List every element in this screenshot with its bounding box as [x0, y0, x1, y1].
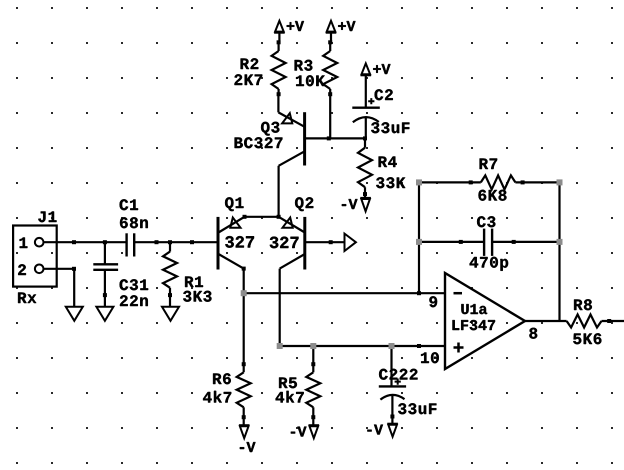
label LF347	[453, 320, 496, 330]
label Q3	[261, 122, 279, 136]
label R4	[379, 157, 397, 168]
junction dots (black)	[72, 40, 611, 419]
label 33uF	[371, 122, 409, 133]
wire feedback left vertical	[418, 182, 420, 293]
power +V (R2)	[274, 21, 285, 43]
label R8	[574, 299, 592, 310]
label 10K	[296, 75, 325, 86]
label 8	[529, 328, 537, 339]
label 327	[270, 237, 299, 249]
transistor Q2	[279, 217, 305, 270]
label 1	[20, 238, 28, 249]
capacitor C31	[93, 264, 118, 270]
capacitor C1	[127, 233, 135, 256]
power -V (R6)	[239, 425, 250, 438]
power -V (R5)	[309, 425, 320, 438]
label 10	[421, 352, 439, 363]
label 327	[225, 236, 254, 248]
label R2	[241, 58, 259, 69]
transistor Q1	[218, 217, 245, 270]
label C222	[379, 369, 417, 380]
capacitor C3	[419, 229, 560, 256]
label 2K7	[235, 74, 263, 85]
power -V (C222)	[387, 424, 398, 437]
capacitor C222 (polarized)	[379, 346, 406, 424]
label R6	[213, 373, 231, 384]
label 5K6	[573, 333, 601, 344]
resistor R4	[358, 138, 372, 198]
label J1	[38, 212, 56, 223]
power +V (R3)	[326, 21, 337, 43]
capacitor C2 (polarized)	[352, 108, 380, 139]
label 68n	[120, 217, 148, 228]
wire Q1 emitter to common node	[245, 216, 279, 218]
label R1	[185, 277, 203, 288]
label +V	[287, 21, 304, 31]
label 33uF	[398, 403, 436, 414]
wire Q3 emitter up to R2	[277, 94, 279, 112]
label 470p	[470, 257, 509, 271]
op-amp U1a	[445, 273, 525, 369]
label BC327	[235, 137, 283, 148]
wire Q1 collector down and to op-amp pin 9	[244, 269, 445, 294]
label 3K3	[183, 291, 211, 302]
wire Q2 base to port	[306, 241, 345, 243]
label 33K	[376, 177, 405, 188]
wire pin1 to C1	[44, 241, 127, 243]
label 22n	[120, 295, 148, 306]
label C31	[120, 279, 149, 290]
label 6K8	[479, 190, 507, 201]
label -V	[367, 425, 383, 435]
resistor R8	[567, 315, 624, 328]
label -V	[342, 199, 358, 209]
label +V	[373, 64, 390, 74]
wire C31 branch	[104, 242, 106, 307]
ground (pin 2)	[66, 307, 83, 321]
wire Q2 collector down and to op-amp pin 10	[280, 269, 445, 346]
label Q1	[225, 197, 243, 211]
label C1	[120, 199, 138, 210]
C2 plus mark	[368, 98, 374, 104]
C222 plus mark	[395, 379, 401, 385]
resistor R6	[237, 293, 251, 426]
label 9	[429, 296, 437, 307]
label -V	[291, 427, 307, 437]
label Q2	[295, 197, 313, 211]
resistor R2	[272, 42, 286, 94]
connector J1	[13, 226, 57, 287]
resistor R1	[163, 242, 177, 307]
wire pin2 to ground	[44, 269, 75, 307]
transistor Q3	[278, 112, 304, 166]
ground (R1)	[162, 307, 179, 321]
label 4k7	[203, 391, 231, 403]
label +V	[338, 21, 355, 31]
label R3	[295, 60, 313, 71]
label Rx	[18, 293, 36, 304]
ground (C31)	[96, 307, 113, 321]
resistor R5	[306, 346, 320, 426]
wire Q3 base row	[306, 137, 366, 139]
power +V (C2)	[361, 63, 372, 107]
wire op-amp output	[525, 320, 567, 322]
label 4k7	[276, 391, 304, 403]
label -V	[240, 442, 256, 452]
label C3	[477, 216, 495, 227]
label C2	[375, 89, 393, 100]
power -V (R4)	[360, 198, 371, 211]
wire feedback right vertical	[558, 182, 560, 321]
wire common node up to Q3 collector	[278, 166, 280, 217]
port arrow (Q2 base)	[345, 234, 356, 251]
resistor R3	[323, 42, 337, 138]
junction squares (gray)	[241, 179, 563, 349]
resistor R7	[419, 175, 560, 189]
label R5	[279, 378, 297, 389]
label U1a	[461, 304, 487, 314]
label R7	[480, 159, 498, 170]
label 2	[18, 264, 26, 275]
wire C1 to Q1 base	[134, 241, 219, 243]
